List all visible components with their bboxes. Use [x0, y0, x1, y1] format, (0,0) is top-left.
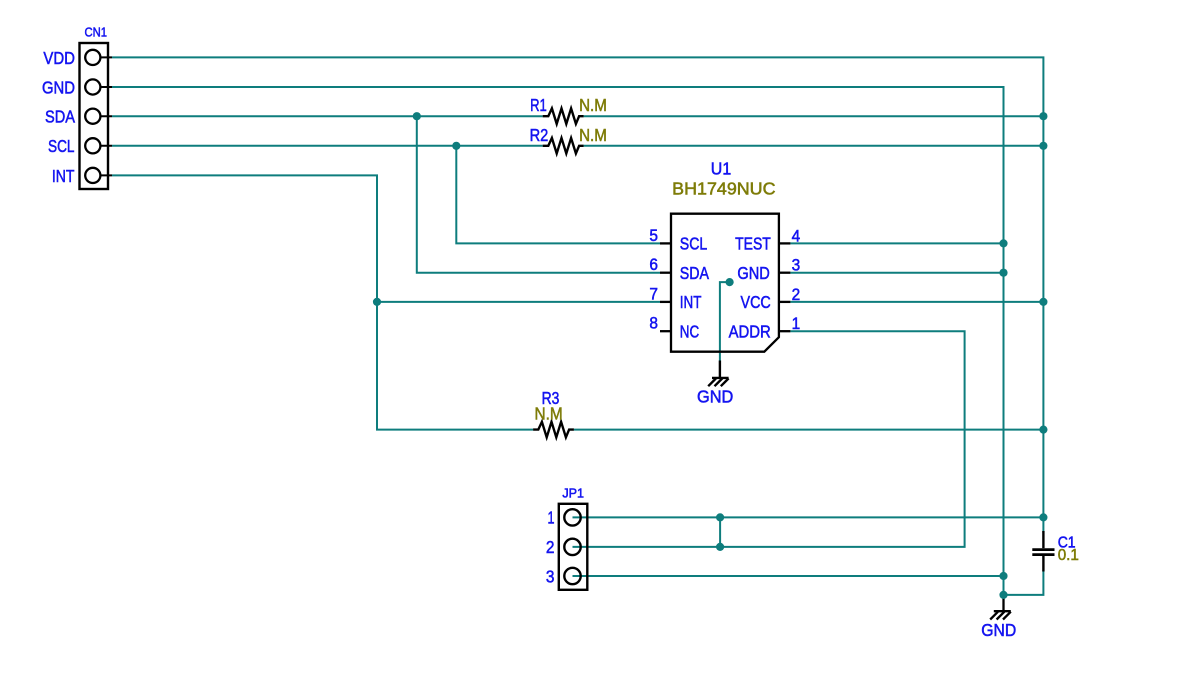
wire U1 VCC pin2 to VDD vertical [790, 301, 1043, 303]
junction dot VCC-VDD [1039, 298, 1047, 306]
svg-text:R2: R2 [530, 125, 549, 145]
CN1 pin2 circle [85, 79, 100, 94]
wire U1 TEST pin4 to GND vertical [790, 242, 1003, 244]
U1 pin 2 stub [778, 301, 790, 303]
ground symbol under U1 [708, 361, 728, 387]
svg-text:SDA: SDA [45, 107, 75, 127]
junction dot U1GND-GND [999, 269, 1007, 277]
junction dot U1 internal GND [726, 278, 734, 286]
wire JP1 jumper pin1-pin2 [719, 517, 721, 547]
wire JP1 pin3 to GND vertical [573, 575, 1004, 577]
svg-text:ADDR: ADDR [729, 322, 771, 342]
svg-text:NC: NC [680, 322, 699, 342]
CN1 pin2 tick [93, 86, 112, 88]
wire VDD net: CN1 pin1 right then down right side [112, 57, 1043, 517]
capacitor C1 [1032, 531, 1054, 572]
wire SDA branch down to U1 pin6 [417, 116, 660, 273]
svg-text:0.1: 0.1 [1058, 547, 1079, 564]
wire SCL branch down to U1 pin5 [456, 146, 660, 244]
junction dot R3-VDD [1039, 426, 1047, 434]
junction dot R2-VDD [1039, 142, 1047, 150]
wire INT branch to U1 pin7 [377, 301, 660, 303]
svg-text:7: 7 [649, 284, 658, 303]
svg-text:INT: INT [52, 166, 75, 186]
svg-text:N.M: N.M [579, 125, 607, 145]
U1 pin 5 stub [660, 242, 672, 244]
CN1 pin5 circle [85, 168, 100, 183]
connector JP1 box [559, 504, 588, 590]
junction dot INT branch [373, 298, 381, 306]
junction dot TEST-GND [999, 239, 1007, 247]
wire C1 bottom to GND corner [1004, 570, 1044, 595]
wire U1 ADDR pin1 right, down, left to JP1 pin2 [573, 331, 965, 547]
svg-text:SCL: SCL [680, 234, 708, 254]
svg-text:VDD: VDD [43, 48, 75, 68]
svg-text:8: 8 [649, 314, 658, 333]
wire INT net: CN1 pin5 right, down, to R3 left [112, 175, 533, 429]
wire C1 top lead [1042, 517, 1044, 533]
svg-text:GND: GND [697, 386, 733, 406]
svg-text:3: 3 [546, 566, 555, 586]
ground symbol bottom right [990, 595, 1011, 620]
svg-text:GND: GND [737, 263, 769, 283]
svg-text:U1: U1 [711, 158, 731, 178]
U1 pin 7 stub [660, 301, 672, 303]
wire JP1 pin1 to C1 top junction [573, 516, 1044, 518]
JP1 pin2 circle [564, 539, 580, 555]
svg-text:6: 6 [649, 255, 658, 274]
CN1 pin4 tick [93, 145, 112, 147]
svg-text:N.M: N.M [579, 95, 607, 115]
CN1 pin5 tick [93, 174, 112, 176]
junction dot JP1 jumper bottom [716, 543, 724, 551]
resistor R3 [533, 422, 574, 438]
junction dot SDA branch [413, 112, 421, 120]
wire U1 internal GND pin to ground symbol [720, 282, 730, 360]
CN1 pin3 tick [93, 115, 112, 117]
U1 pin 3 stub [778, 272, 790, 274]
junction dot GND corner [999, 591, 1007, 599]
svg-text:1: 1 [548, 508, 555, 528]
U1 pin 1 stub [778, 330, 790, 332]
U1 pin 6 stub [660, 272, 672, 274]
connector CN1 box [80, 43, 109, 189]
svg-text:BH1749NUC: BH1749NUC [672, 179, 775, 199]
junction dot R1-VDD [1039, 112, 1047, 120]
JP1 pin3 circle [564, 568, 580, 584]
JP1 pin1 circle [564, 509, 580, 525]
wire U1 GND pin3 to GND vertical [790, 272, 1003, 274]
junction dot SCL branch [452, 142, 460, 150]
svg-text:GND: GND [981, 620, 1016, 640]
CN1 pin1 tick [93, 56, 112, 58]
wire SDA net: CN1 pin3 to R1 left [112, 115, 543, 117]
svg-text:GND: GND [42, 77, 75, 97]
svg-text:2: 2 [792, 285, 801, 304]
svg-text:TEST: TEST [735, 234, 771, 254]
resistor R1 [543, 108, 584, 124]
junction dot JP1 jumper top [716, 513, 724, 521]
op-amp/IC U1 box [671, 214, 779, 352]
svg-text:CN1: CN1 [85, 25, 108, 40]
junction dot C1 top [1039, 513, 1047, 521]
CN1 pin3 circle [85, 109, 100, 124]
wire R3 right to VDD vertical [574, 429, 1044, 431]
wire SCL net: CN1 pin4 to R2 left [112, 145, 543, 147]
U1 pin 8 stub [660, 330, 672, 332]
svg-text:JP1: JP1 [562, 486, 584, 501]
junction dot JP1 pin3-GND [999, 572, 1007, 580]
svg-text:R1: R1 [530, 95, 547, 115]
svg-text:2: 2 [546, 537, 555, 557]
CN1 pin4 circle [85, 138, 100, 153]
resistor R2 [543, 138, 584, 154]
svg-text:SCL: SCL [48, 136, 75, 156]
svg-text:3: 3 [792, 256, 801, 275]
svg-text:SDA: SDA [680, 263, 709, 283]
U1 pin 4 stub [778, 242, 790, 244]
wire GND net: CN1 pin2 right then down right side [112, 87, 1004, 595]
svg-text:INT: INT [680, 292, 702, 312]
svg-text:N.M: N.M [535, 404, 563, 424]
svg-text:5: 5 [649, 226, 658, 245]
svg-text:4: 4 [792, 226, 801, 245]
svg-text:VCC: VCC [741, 292, 771, 312]
wire R2 right to VDD vertical [584, 145, 1044, 147]
svg-text:1: 1 [792, 314, 801, 333]
wire R1 right to VDD vertical [584, 115, 1044, 117]
CN1 pin1 circle [85, 50, 100, 65]
